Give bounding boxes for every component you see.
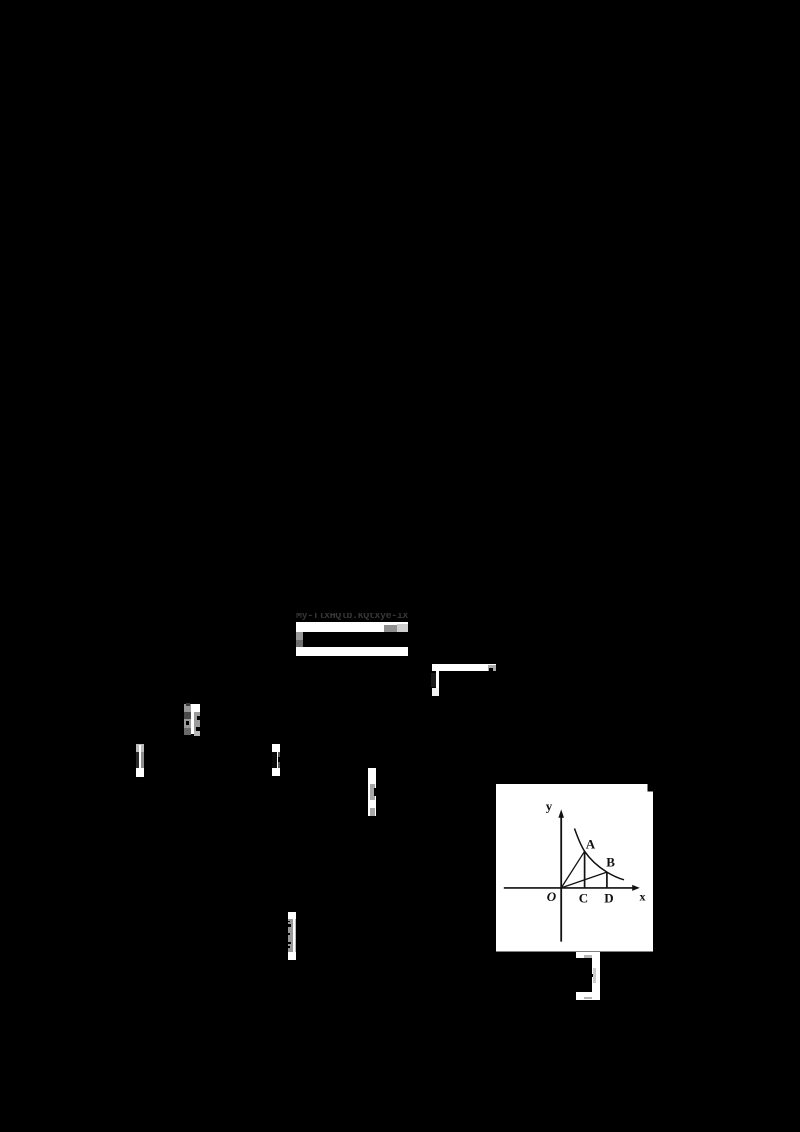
svg-text:A: A — [586, 837, 596, 852]
svg-text:O: O — [547, 889, 557, 904]
svg-text:B: B — [606, 855, 615, 870]
svg-text:y: y — [546, 799, 553, 814]
svg-text:x: x — [640, 890, 646, 904]
svg-text:D: D — [604, 891, 613, 906]
svg-text:C: C — [579, 891, 588, 906]
